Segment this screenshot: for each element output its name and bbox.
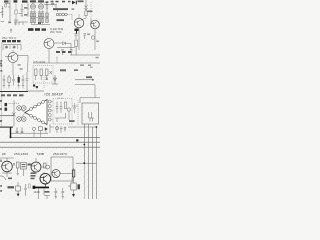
svg-text:IC5 10uW: IC5 10uW [34,60,46,64]
svg-text:T43B: T43B [37,152,44,156]
svg-text:IC6 S042P: IC6 S042P [45,93,64,97]
svg-text:25C1973: 25C1973 [53,152,67,156]
svg-text:09: 09 [2,152,6,156]
svg-text:10uW: 10uW [34,191,41,194]
svg-text:+45 14: +45 14 [57,98,64,100]
svg-text:25C 710 C: 25C 710 C [2,36,17,40]
svg-text:25C 710C: 25C 710C [50,30,62,34]
svg-text:25C1306: 25C1306 [14,152,28,156]
